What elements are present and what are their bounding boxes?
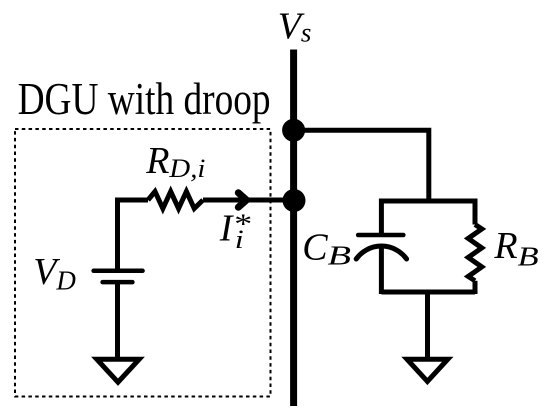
wire: battery bottom down to ground (left) xyxy=(115,282,120,359)
resistor RB zigzag xyxy=(468,225,482,281)
wire: below capacitor to bottom rail xyxy=(379,246,384,294)
ground symbol (right) xyxy=(407,359,448,381)
wire: bottom rail down to ground (right) xyxy=(425,292,430,359)
ground symbol (left) xyxy=(97,359,139,382)
wire: right branch down to resistor RB xyxy=(473,199,478,225)
wire: resistor to lower node xyxy=(203,198,290,203)
wire: left branch down to capacitor xyxy=(379,199,384,236)
current arrow head Ii* xyxy=(238,193,246,207)
wire: battery top up and right to resistor xyxy=(118,200,149,271)
capacitor CB curved plate xyxy=(356,246,406,259)
capacitor CB top plate xyxy=(358,233,403,238)
wire: main bus Vs (vertical) xyxy=(290,50,297,407)
wire: RC parallel top rail xyxy=(381,199,475,204)
node junction dot (upper, bus to load branch) xyxy=(282,119,305,142)
node junction dot (lower, DGU to bus) xyxy=(283,189,306,212)
wire: from upper node to load branch (right then down) xyxy=(294,130,429,201)
battery VD long plate xyxy=(94,269,143,274)
battery VD short plate xyxy=(103,280,133,285)
wire: RC parallel bottom rail xyxy=(381,290,475,295)
dashed box around DGU xyxy=(15,129,271,397)
svg-text:i: i xyxy=(235,225,244,254)
svg-text:DGU with droop: DGU with droop xyxy=(18,74,271,124)
resistor RDi zigzag xyxy=(148,192,203,209)
wire: below resistor RB to bottom rail xyxy=(473,281,478,294)
